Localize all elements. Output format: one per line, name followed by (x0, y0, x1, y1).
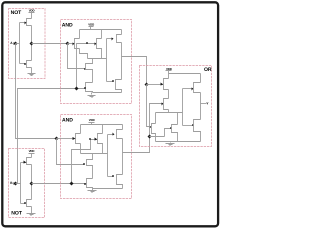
input pin A (10, 41, 16, 45)
wire B' riser jog to PMOS2 gate AND2 (72, 140, 95, 184)
NMOS1 gate plate OR (149, 126, 151, 128)
inverter NMOS gate stub AND2 (108, 175, 114, 177)
VDD symbol V2 (29, 149, 35, 157)
wire gate column NOT1 (19, 23, 21, 64)
inverter PMOS gate stub AND2 (108, 133, 115, 136)
NMOS1 gate plate (84, 68, 86, 70)
transistor Q16 inverter NMOS (117, 175, 123, 189)
wire A down to AND2 in1 (16, 44, 57, 139)
wire ground bus AND1 (93, 92, 122, 94)
wire inverter output column OR (200, 93, 202, 120)
inverter PMOS gate stub OR (183, 88, 194, 91)
transistor Q12 PMOS2 (95, 125, 103, 154)
inverter NMOS gate stub OR (183, 124, 194, 126)
node A junction dot (14, 42, 18, 46)
transistor Q5 PMOS1 (73, 30, 80, 49)
transistor Q6 PMOS2 (95, 30, 102, 59)
svg-text:NOT: NOT (11, 211, 23, 217)
transistor Q7 NMOS1 (86, 59, 93, 83)
wire PMOS1 drain to NAND bus AND2 (80, 144, 82, 154)
VDD symbol V3 (88, 23, 94, 30)
node AND1 in2 dot (75, 87, 79, 91)
PMOS2 gate corner mark AND2 (89, 138, 91, 140)
NMOS2 gate plate OR (170, 127, 172, 129)
wire B up to AND1 in2 (18, 89, 86, 184)
ground G4 (88, 189, 97, 193)
transistor Q2 NMOS (20, 61, 32, 68)
wire inverter output column AND2 (122, 139, 124, 175)
node NOT2 output dot (30, 182, 34, 186)
node AND1 in1 dot (66, 42, 70, 46)
ground G2 (27, 207, 36, 216)
input pin B (10, 181, 16, 185)
svg-text:VDD: VDD (89, 118, 95, 122)
wire B to gate column (16, 183, 21, 185)
node OR in2 dot (148, 135, 152, 139)
ground G5 (166, 142, 175, 146)
wire ground bus OR (156, 141, 201, 143)
svg-text:VDD: VDD (29, 149, 35, 153)
transistor Q13 NMOS1 (87, 154, 93, 179)
wire NOT1 output to AND1 in1 (32, 43, 68, 45)
transistor Q4 NMOS (21, 200, 32, 207)
VDD symbol V4 (89, 118, 95, 124)
NOT2 bounding box (9, 149, 45, 218)
node AND2 in2 dot (70, 182, 74, 186)
VDD symbol V1 (29, 9, 35, 19)
wire NAND bus AND2 (81, 153, 108, 155)
wire AND2 output to OR in2 (123, 137, 150, 153)
transistor Q8 NMOS2 (84, 83, 92, 93)
wire VDD rail OR (169, 73, 201, 75)
wire inverter gate column AND2 (107, 135, 109, 177)
wire in2 riser to PMOS2 gate (150, 104, 162, 137)
node B junction dot (14, 182, 18, 186)
node OR in1 dot (145, 83, 149, 87)
NMOS1 gate plate AND2 (83, 163, 85, 165)
OR bounding box (140, 66, 212, 147)
wire A' gate column (68, 44, 86, 69)
PMOS2 gate corner mark (86, 42, 88, 44)
output pin Y (206, 102, 209, 106)
wire AND1 output to OR in1 (122, 57, 147, 85)
transistor Q9 inverter PMOS (117, 30, 122, 43)
transistor Q17 PMOS1 (161, 79, 169, 99)
AND2 bounding box (61, 115, 132, 199)
wire gate column NOT2 (20, 163, 22, 204)
svg-text:NOT: NOT (11, 10, 23, 16)
transistor Q11 PMOS1 (73, 125, 81, 144)
wire A gate column AND2 (57, 139, 85, 165)
transistor Q20 NMOS2 (172, 113, 178, 142)
wire inverter gate column AND1 (106, 39, 108, 82)
wire output column NOT1 (31, 26, 33, 61)
svg-text:OR: OR (204, 67, 212, 73)
wire B riser to PMOS2 gate (77, 44, 95, 89)
inverter PMOS gate stub (107, 38, 114, 41)
wire ground bus AND2 (93, 188, 123, 190)
wire in2 to NMOS2 gate riser (150, 129, 172, 137)
svg-text:VDD: VDD (88, 23, 94, 27)
transistor Q10 inverter NMOS (116, 80, 122, 93)
transistor Q14 NMOS2 (84, 179, 92, 189)
transistor Q22 inverter NMOS (194, 120, 201, 142)
outer page border (2, 2, 218, 226)
NOT1 bounding box (9, 9, 46, 79)
wire output Y tap (201, 103, 207, 105)
svg-text:AND: AND (62, 22, 73, 28)
wire VDD rail AND2 (81, 124, 123, 126)
wire NOR bus (156, 112, 183, 114)
wire A to gate column (16, 43, 20, 45)
transistor Q21 inverter PMOS (194, 74, 201, 93)
AND1 bounding box (61, 20, 132, 104)
wire output column NOT2 (31, 165, 33, 200)
ground G3 (88, 93, 96, 98)
transistor Q19 NMOS1 (152, 113, 156, 142)
VDD symbol V5 (166, 67, 172, 79)
inverter NMOS gate stub (107, 80, 114, 82)
transistor Q18 PMOS2 (162, 99, 169, 113)
wire PMOS1 drain jog to NAND bus (80, 49, 88, 59)
wire in1 column to NMOS1 gate (147, 85, 151, 127)
wire in1 to PMOS1 gate (57, 138, 73, 140)
transistor Q3 PMOS (21, 158, 32, 165)
wire inverter gate column OR (182, 89, 184, 126)
svg-text:AND: AND (62, 118, 73, 124)
ground G1 (28, 68, 36, 76)
node AND2 in1 dot (55, 137, 59, 141)
wire in1 to PMOS1 gate (68, 43, 73, 45)
wire NAND bus (88, 58, 107, 60)
wire inverter output column AND1 (121, 43, 123, 80)
wire VDD rail AND1 (80, 29, 122, 31)
wire in1 to PMOS1 gate (147, 84, 161, 86)
wire NOT2 output to AND2 in2 (32, 183, 87, 185)
transistor Q15 inverter PMOS (117, 125, 123, 139)
transistor Q1 PMOS (20, 19, 32, 26)
node NOT1 output dot (30, 42, 34, 46)
